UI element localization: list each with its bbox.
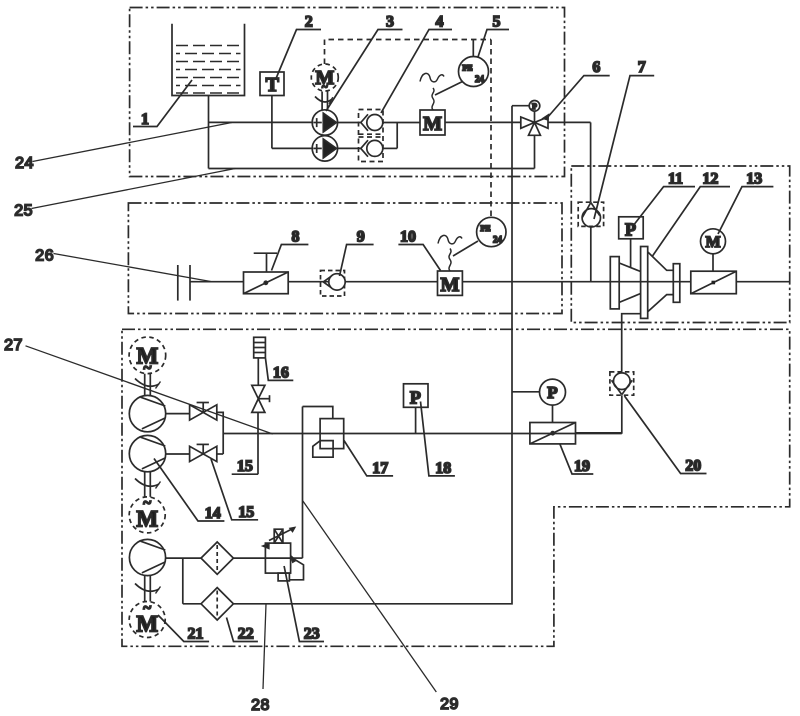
valve 6 gauge <box>534 111 536 122</box>
svg-text:9: 9 <box>357 229 365 246</box>
svg-text:M: M <box>423 113 442 135</box>
svg-text:4: 4 <box>436 14 444 31</box>
pump 14a <box>129 395 165 431</box>
wire accumulator down <box>257 358 259 385</box>
needle valve 16b <box>252 385 265 398</box>
M box 5 <box>420 110 445 135</box>
svg-text:26: 26 <box>35 248 54 265</box>
valve 23 bypass <box>278 573 289 581</box>
leader 22 <box>227 618 258 642</box>
svg-text:~: ~ <box>143 496 151 512</box>
svg-text:1: 1 <box>141 111 149 128</box>
svg-text:18: 18 <box>435 460 451 477</box>
leader 9 <box>340 245 374 277</box>
svg-text:7: 7 <box>638 59 646 76</box>
leader 26 <box>54 254 211 282</box>
svg-text:17: 17 <box>372 460 388 477</box>
border frame right box <box>571 166 789 323</box>
svg-text:PE: PE <box>480 224 490 233</box>
wire P gauge branch <box>512 391 540 393</box>
wire suction line <box>209 121 313 123</box>
wire main line 2 <box>190 281 790 283</box>
leader 24 <box>33 123 232 162</box>
motor M3 <box>311 64 338 91</box>
wire after check valves <box>383 122 420 124</box>
leader 5 <box>478 30 509 58</box>
wire valve23 out riser <box>291 557 303 559</box>
leader 6 arrowhead <box>543 115 548 120</box>
svg-text:19: 19 <box>574 458 590 475</box>
leader 21 <box>158 615 209 642</box>
svg-text:10: 10 <box>400 229 416 246</box>
motor MA <box>129 337 166 374</box>
wire PS24 stem <box>472 40 474 57</box>
svg-text:27: 27 <box>4 337 23 354</box>
wire bottom main line <box>223 433 622 435</box>
svg-text:24: 24 <box>475 74 485 84</box>
wire check valve 20 to valve 19 <box>576 395 622 433</box>
pressure switch PE24 lower <box>477 217 506 246</box>
svg-text:15: 15 <box>238 504 254 521</box>
capillary squiggle 10 <box>449 249 451 272</box>
svg-text:23: 23 <box>304 626 320 643</box>
filter 22a <box>201 542 233 574</box>
leader 14 <box>154 459 224 522</box>
M box 10 <box>438 271 463 295</box>
filter 22b <box>201 588 233 620</box>
wire M5 to valve 6 <box>445 121 521 123</box>
temperature sensor T2 <box>260 72 284 96</box>
pump P1 <box>312 110 337 135</box>
svg-text:P: P <box>625 220 636 240</box>
wire P11 stem <box>630 239 632 267</box>
wire filter22a out <box>233 557 265 559</box>
wire P18 stem <box>415 407 417 433</box>
leader 18 <box>421 402 455 476</box>
svg-text:M: M <box>705 234 720 251</box>
wire pump2 suction <box>290 147 312 149</box>
svg-text:2: 2 <box>305 14 313 31</box>
leader 6 <box>547 76 610 118</box>
leader 28 <box>263 604 266 689</box>
wire 17 riser <box>302 407 304 559</box>
wire check valve 7 down <box>590 227 592 282</box>
svg-text:28: 28 <box>251 697 270 714</box>
wire pump14a out <box>166 413 190 415</box>
wire tank drop <box>208 96 210 169</box>
gate valve 15a <box>190 405 217 420</box>
svg-text:P: P <box>410 388 421 408</box>
wire pump outputs <box>338 122 362 124</box>
svg-text:25: 25 <box>14 203 33 220</box>
leader 13 <box>718 187 773 234</box>
svg-text:16: 16 <box>273 364 289 381</box>
label 15 upper <box>232 473 258 475</box>
svg-text:13: 13 <box>746 171 762 188</box>
wire valve6 out right <box>548 121 591 123</box>
control valve 8 <box>244 272 289 294</box>
svg-text:15: 15 <box>237 458 253 475</box>
svg-text:11: 11 <box>668 171 683 188</box>
check valve 4a <box>361 114 368 131</box>
svg-text:21: 21 <box>188 626 204 643</box>
leader 20 <box>625 396 707 474</box>
leader 29 <box>303 501 437 692</box>
leader 12 <box>653 187 731 256</box>
valve 13 box <box>691 271 737 294</box>
svg-text:6: 6 <box>592 59 600 76</box>
relief valve 23 <box>265 543 290 573</box>
border frame second box <box>128 203 562 314</box>
M gauge 13 <box>701 229 726 254</box>
wire PE24 capillary link <box>453 241 478 256</box>
wire turbine drain <box>622 314 641 372</box>
tank liquid <box>176 46 241 94</box>
P box 18 <box>404 384 429 408</box>
wire T2 stem <box>271 96 273 149</box>
wire pump21 out <box>166 557 201 559</box>
leader 4 <box>381 30 452 114</box>
pump P2 <box>312 136 337 161</box>
svg-text:3: 3 <box>386 14 394 31</box>
wire long drop line <box>233 106 512 604</box>
pump 14b <box>129 435 165 471</box>
svg-text:20: 20 <box>685 458 701 475</box>
wire pump14b out <box>166 453 190 455</box>
shaft MB <box>144 472 146 497</box>
capillary squiggle 5 <box>432 88 434 110</box>
wire valve6 bottom <box>534 135 536 168</box>
leader 3 <box>326 30 403 112</box>
border frame bottom box <box>122 329 790 646</box>
svg-text:PE: PE <box>462 64 472 73</box>
leader 10 <box>398 245 440 271</box>
leader 17 <box>344 441 393 476</box>
svg-text:22: 22 <box>238 626 254 643</box>
leader 15 lower <box>211 459 258 520</box>
leader 11 <box>635 187 696 224</box>
leader 2 <box>276 30 321 79</box>
svg-text:5: 5 <box>493 14 501 31</box>
P box 11 <box>619 217 644 239</box>
wire to check valve 7 <box>590 122 592 202</box>
wire valve15a out <box>217 412 223 454</box>
turbine 12 <box>610 257 619 309</box>
shaft M3 <box>321 92 323 111</box>
wire P gauge stem <box>552 405 554 422</box>
check valves 4 dashed box <box>359 110 384 162</box>
svg-text:P: P <box>547 383 557 402</box>
leader 19 <box>560 444 593 474</box>
wire PS24 capillary link <box>435 82 463 96</box>
motor MB <box>129 497 165 533</box>
wire M13 stem <box>712 254 714 271</box>
svg-text:24: 24 <box>15 155 34 172</box>
accumulator 16 <box>254 337 266 358</box>
leader 7 <box>594 76 654 219</box>
P gauge circle <box>540 379 566 405</box>
shaft MC <box>144 576 146 602</box>
svg-text:14: 14 <box>205 505 221 522</box>
svg-text:P: P <box>532 102 537 111</box>
leader 25 <box>32 169 236 209</box>
svg-text:24: 24 <box>493 235 503 245</box>
svg-text:~: ~ <box>322 81 328 93</box>
leader 23 <box>284 566 324 642</box>
wire return line <box>209 168 535 170</box>
wire needle valve down <box>257 412 259 474</box>
flange bars <box>177 265 179 301</box>
check valve 20 <box>610 372 634 395</box>
svg-text:M: M <box>441 274 460 296</box>
pump 21 <box>129 539 165 575</box>
leader 16 <box>266 359 294 381</box>
check valve 7 <box>578 202 603 226</box>
leader 8 <box>272 245 309 271</box>
three-way valve 6 <box>521 117 535 128</box>
flow meter 17 <box>303 407 333 419</box>
tank 1 <box>172 24 245 96</box>
svg-text:12: 12 <box>702 171 718 188</box>
leader 1 <box>133 80 192 127</box>
valve 19 <box>530 423 576 444</box>
dashed pump-unit enclosure <box>325 40 492 218</box>
gate valve 15b <box>190 446 217 461</box>
svg-text:T: T <box>266 74 280 96</box>
svg-text:29: 29 <box>440 696 459 713</box>
leader 27 <box>26 346 273 434</box>
check valve 9 <box>321 271 345 297</box>
border frame top box <box>130 8 565 177</box>
shaft MA <box>144 374 146 396</box>
wire valve6 gauge loop <box>512 105 529 107</box>
motor MC <box>129 602 165 638</box>
svg-text:8: 8 <box>292 229 300 246</box>
pressure switch PS24 top <box>459 57 489 87</box>
check valve 4b <box>361 140 368 157</box>
svg-text:~: ~ <box>143 601 151 617</box>
